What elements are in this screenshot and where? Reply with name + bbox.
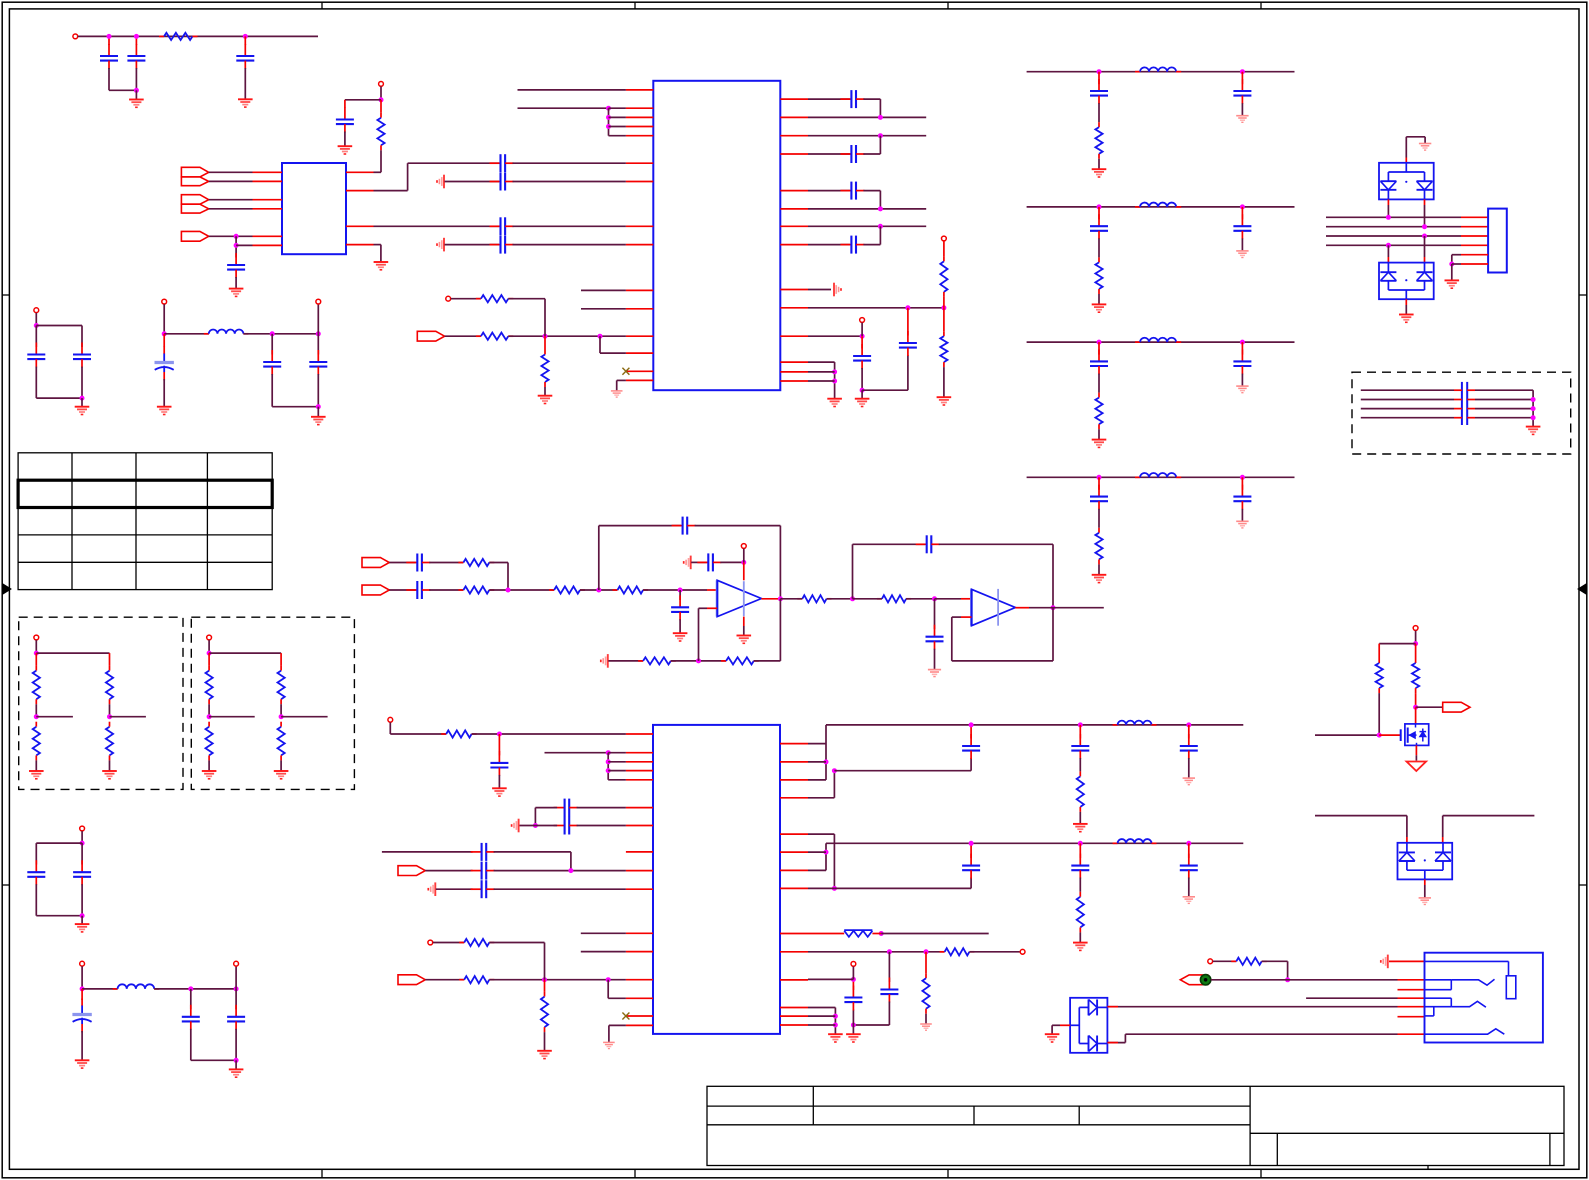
wire bbox=[209, 208, 253, 210]
wire bbox=[1454, 417, 1462, 419]
ground bbox=[737, 636, 752, 644]
wire bus bbox=[1326, 226, 1461, 228]
junction bbox=[134, 34, 139, 39]
wire bbox=[1406, 816, 1408, 837]
pin J1 bbox=[1461, 226, 1488, 228]
wire bbox=[489, 979, 626, 981]
ground bbox=[537, 1051, 552, 1059]
wire bbox=[808, 190, 850, 192]
resistor R17 bbox=[459, 976, 494, 983]
ground bbox=[1419, 898, 1431, 905]
wire bbox=[952, 616, 961, 618]
wire bbox=[209, 716, 255, 718]
wire bbox=[808, 289, 831, 291]
capacitor C16 bbox=[27, 343, 45, 368]
wire bbox=[863, 98, 880, 100]
capacitor bbox=[1090, 485, 1108, 510]
wire bbox=[1424, 879, 1426, 885]
junction bbox=[969, 841, 974, 846]
wire bbox=[743, 562, 745, 580]
wire bbox=[570, 852, 572, 871]
wire bbox=[518, 107, 609, 109]
wire bbox=[108, 36, 110, 45]
ground bbox=[1073, 824, 1088, 832]
wire rail B bbox=[826, 842, 1243, 844]
wire bbox=[1098, 238, 1100, 257]
inductor L7 bbox=[1113, 839, 1157, 843]
wire bbox=[970, 878, 972, 889]
wire bbox=[208, 760, 210, 771]
junction bbox=[533, 823, 538, 828]
wire bbox=[581, 932, 626, 934]
resistor R13 bbox=[721, 657, 759, 664]
wire bbox=[939, 543, 1053, 545]
wire bbox=[853, 598, 882, 600]
wire bbox=[1079, 932, 1081, 942]
wire bbox=[852, 1010, 854, 1026]
resistor R21 bbox=[1077, 892, 1084, 933]
power bar VREF bbox=[601, 654, 608, 668]
wire bbox=[208, 653, 210, 666]
wire bbox=[695, 525, 781, 527]
ground bbox=[1183, 897, 1195, 904]
ground bbox=[1419, 144, 1431, 151]
wire bbox=[1442, 837, 1444, 843]
wire bbox=[1029, 607, 1104, 609]
border tick bbox=[1579, 294, 1587, 296]
pin J2 bbox=[1398, 979, 1425, 981]
revision table bbox=[18, 453, 272, 590]
wire bbox=[1452, 263, 1461, 265]
wire bbox=[743, 617, 745, 626]
resistor R6 bbox=[940, 256, 947, 297]
wire bbox=[36, 915, 82, 917]
resistor R16 bbox=[441, 730, 476, 737]
wire bbox=[1241, 342, 1243, 355]
wire bbox=[808, 380, 835, 382]
junction bbox=[1531, 406, 1536, 411]
wire bbox=[1361, 417, 1454, 419]
wire bbox=[853, 1024, 889, 1026]
resistor bbox=[278, 722, 285, 761]
dual diode D4 bbox=[1070, 998, 1107, 1053]
border tick bbox=[634, 2, 636, 9]
pin U2 right bbox=[780, 116, 808, 118]
wire bbox=[608, 770, 626, 772]
pin U2 right bbox=[780, 380, 808, 382]
wire bbox=[608, 752, 626, 754]
wire bbox=[808, 116, 926, 118]
wire bbox=[863, 190, 880, 192]
connector J2 body bbox=[1425, 953, 1543, 1043]
wire bbox=[1287, 961, 1289, 980]
pin U4 left bbox=[626, 733, 653, 735]
terminal P9 bbox=[741, 544, 746, 549]
junction bbox=[316, 331, 321, 336]
wire bbox=[1107, 1006, 1397, 1008]
junction bbox=[1422, 224, 1427, 229]
wire bbox=[81, 367, 83, 399]
wire bbox=[872, 933, 881, 935]
capacitor C26 bbox=[926, 625, 944, 650]
wire bbox=[507, 563, 509, 591]
wire bbox=[879, 191, 881, 209]
junction bbox=[234, 234, 239, 239]
resistor R4 bbox=[476, 295, 513, 302]
wire bbox=[888, 952, 890, 982]
wire bbox=[808, 225, 926, 227]
pin U2 left bbox=[626, 181, 653, 183]
ground bbox=[1236, 521, 1248, 528]
wire bbox=[1188, 758, 1190, 778]
wire bbox=[943, 241, 945, 256]
wire bbox=[808, 779, 826, 781]
ground bbox=[75, 407, 90, 415]
ground bbox=[229, 1069, 244, 1077]
resistor bbox=[206, 722, 213, 761]
junction bbox=[851, 977, 856, 982]
capacitor C4 bbox=[336, 108, 354, 133]
capacitor C25 bbox=[697, 553, 721, 571]
wire bbox=[81, 326, 83, 348]
capacitor C45 bbox=[182, 1005, 200, 1030]
ground bbox=[928, 670, 941, 677]
junction bbox=[134, 88, 139, 93]
junction bbox=[678, 588, 683, 593]
wire bbox=[208, 640, 210, 653]
wire bbox=[243, 333, 318, 335]
pin U2 left bbox=[626, 370, 653, 372]
wire bbox=[852, 544, 854, 599]
pin U4 left bbox=[626, 888, 653, 890]
wire bbox=[317, 407, 319, 417]
ground bbox=[1236, 116, 1248, 123]
wire bbox=[720, 561, 744, 563]
wire bbox=[235, 236, 237, 257]
junction bbox=[1186, 841, 1191, 846]
capacitor C36 bbox=[1180, 734, 1198, 759]
ground bbox=[920, 1024, 932, 1030]
ground bbox=[157, 407, 172, 415]
wire bbox=[1424, 205, 1426, 227]
wire bbox=[390, 733, 446, 735]
junction bbox=[568, 868, 573, 873]
port EN bbox=[181, 231, 208, 241]
wire bbox=[135, 36, 137, 45]
border tick bbox=[321, 2, 323, 9]
wire bbox=[35, 843, 37, 864]
wire bbox=[707, 607, 717, 609]
resistor bbox=[1095, 122, 1102, 159]
resistor bbox=[33, 666, 40, 705]
wire bbox=[1387, 245, 1389, 257]
power bar AVDD bbox=[437, 175, 444, 189]
wire bbox=[861, 336, 863, 348]
wire bbox=[834, 887, 971, 889]
wire bbox=[935, 598, 962, 600]
wire bbox=[1475, 399, 1533, 401]
wire bbox=[1361, 399, 1454, 401]
resistor bbox=[206, 666, 213, 705]
pin U2 left bbox=[626, 225, 653, 227]
junction bbox=[234, 243, 239, 248]
capacitor C31 bbox=[471, 843, 495, 861]
wire bbox=[425, 870, 472, 872]
junction bbox=[34, 714, 39, 719]
junction bbox=[506, 588, 511, 593]
wire bbox=[374, 244, 381, 246]
junction bbox=[316, 404, 321, 409]
wire bbox=[808, 335, 862, 337]
pin J1 bbox=[1461, 263, 1488, 265]
wire bbox=[382, 851, 473, 853]
wire bbox=[1306, 997, 1397, 999]
junction bbox=[1377, 733, 1382, 738]
wire bbox=[808, 833, 834, 835]
wire bbox=[1415, 745, 1417, 755]
option box bbox=[191, 617, 354, 789]
wire bbox=[808, 851, 826, 853]
junction bbox=[741, 560, 746, 565]
junction bbox=[542, 977, 547, 982]
junction bbox=[1531, 415, 1536, 420]
pin U1 left bbox=[253, 199, 283, 201]
inductor L1 bbox=[1135, 67, 1181, 71]
wire bbox=[808, 933, 844, 935]
wire bbox=[608, 997, 626, 999]
capacitor bbox=[1233, 349, 1251, 374]
wire bbox=[1188, 725, 1190, 739]
junction bbox=[34, 323, 39, 328]
wire bbox=[852, 979, 854, 990]
op-amp U3A bbox=[717, 580, 761, 616]
junction bbox=[1413, 705, 1418, 710]
wire bbox=[943, 297, 945, 308]
junction bbox=[80, 986, 85, 991]
ground bbox=[274, 771, 289, 779]
wire bbox=[1098, 294, 1100, 304]
terminal P10 bbox=[388, 717, 393, 722]
junction bbox=[207, 651, 212, 656]
wire bbox=[1098, 159, 1100, 169]
capacitor C43 bbox=[73, 860, 91, 885]
wire bbox=[808, 208, 926, 210]
wire bbox=[808, 1024, 835, 1026]
wire bbox=[1454, 399, 1462, 401]
ground bbox=[1092, 575, 1107, 583]
wire bbox=[1188, 843, 1190, 858]
wire bbox=[389, 562, 416, 564]
wire bbox=[1052, 1024, 1060, 1026]
junction bbox=[606, 115, 611, 120]
junction bbox=[1097, 475, 1102, 480]
wire bbox=[535, 807, 557, 809]
wire bbox=[679, 619, 681, 633]
pin U2 left bbox=[626, 126, 653, 128]
wire bbox=[244, 36, 246, 45]
wire bbox=[513, 244, 626, 246]
ground bbox=[202, 771, 217, 779]
ground bbox=[937, 397, 952, 405]
pin U4 left bbox=[626, 761, 653, 763]
wire bbox=[808, 153, 850, 155]
resistor bbox=[33, 722, 40, 761]
wire bbox=[1241, 374, 1243, 387]
capacitor C3 bbox=[236, 44, 254, 69]
wire bbox=[1079, 758, 1081, 771]
resistor R1 bbox=[159, 33, 198, 40]
wire bbox=[1424, 257, 1426, 263]
capacitor C38 bbox=[1071, 854, 1089, 879]
pin J2 bbox=[1398, 1033, 1425, 1035]
wire net VIN bbox=[78, 35, 318, 37]
wire bbox=[1415, 707, 1417, 724]
wire bbox=[679, 590, 681, 600]
wire bbox=[761, 598, 780, 600]
wire bbox=[1389, 960, 1425, 962]
junction bbox=[878, 115, 883, 120]
pin U2 left bbox=[626, 379, 653, 381]
pin U1 right bbox=[346, 190, 374, 192]
pin U2 right bbox=[780, 371, 808, 373]
wire bbox=[534, 808, 536, 826]
no-connect bbox=[622, 368, 629, 375]
wire bbox=[235, 1060, 237, 1069]
wire bbox=[407, 163, 409, 190]
ground bbox=[1236, 386, 1248, 393]
junction bbox=[1097, 69, 1102, 74]
pin J1 bbox=[1461, 235, 1488, 237]
terminal P14 bbox=[1413, 626, 1418, 631]
wire bbox=[961, 616, 972, 618]
wire bbox=[445, 335, 481, 337]
border arrow right bbox=[1578, 584, 1586, 594]
wire bus bbox=[1326, 244, 1461, 246]
wire bbox=[580, 589, 618, 591]
resistor R2 bbox=[377, 113, 384, 151]
wire bbox=[498, 775, 500, 788]
capacitor C20 bbox=[309, 350, 327, 375]
resistor R9 bbox=[458, 586, 494, 593]
pin U4 right bbox=[780, 833, 808, 835]
wire bbox=[489, 589, 554, 591]
wire bbox=[513, 225, 626, 227]
wire bbox=[35, 760, 37, 771]
pin U2 left bbox=[626, 289, 653, 291]
wire bbox=[244, 68, 246, 99]
ferrite bead FB1 bbox=[844, 930, 872, 937]
capacitor bbox=[1090, 349, 1108, 374]
port pair IN1/IN2 bbox=[181, 167, 208, 185]
junction bbox=[1097, 340, 1102, 345]
wire bbox=[1475, 408, 1533, 410]
power bar bbox=[512, 819, 519, 833]
wire bbox=[1107, 1042, 1125, 1044]
wire bbox=[163, 379, 165, 407]
wire bbox=[317, 304, 319, 334]
wire bbox=[1098, 72, 1100, 85]
ground bbox=[1445, 280, 1460, 288]
wire bbox=[1406, 136, 1425, 138]
wire bbox=[82, 988, 118, 990]
wire bbox=[380, 87, 382, 100]
no-connect bbox=[622, 1013, 629, 1020]
wire bbox=[1415, 693, 1417, 707]
capacitor C35 bbox=[1071, 734, 1089, 759]
wire bbox=[1079, 843, 1081, 858]
wire bbox=[1379, 643, 1415, 645]
capacitor C15 bbox=[899, 331, 917, 356]
junction bbox=[606, 106, 611, 111]
ground bbox=[603, 1042, 615, 1048]
pin U2 right bbox=[780, 335, 808, 337]
wire bbox=[852, 967, 854, 980]
wire bbox=[1379, 734, 1401, 736]
wire bbox=[852, 1025, 854, 1034]
wire bbox=[780, 598, 802, 600]
capacitor C23 bbox=[671, 595, 689, 620]
wire bbox=[1098, 429, 1100, 439]
ground bbox=[611, 391, 623, 397]
wire bbox=[191, 1059, 236, 1061]
wire bbox=[135, 90, 137, 99]
wire bbox=[109, 653, 111, 666]
resistor bbox=[278, 666, 285, 705]
wire bbox=[599, 336, 601, 353]
wire bbox=[1387, 205, 1389, 217]
ground bbox=[229, 289, 244, 297]
wire bbox=[544, 387, 546, 396]
junction bbox=[833, 1023, 838, 1028]
pin J1 bbox=[1461, 244, 1488, 246]
junction bbox=[778, 596, 783, 601]
capacitor C5 bbox=[227, 253, 245, 278]
wire bbox=[81, 1031, 83, 1060]
junction bbox=[162, 331, 167, 336]
terminal P13 bbox=[851, 962, 856, 967]
resistor R11 bbox=[613, 586, 649, 593]
wire bbox=[1315, 815, 1407, 817]
wire bbox=[317, 374, 319, 407]
ground bbox=[492, 788, 507, 796]
wire bbox=[1475, 417, 1533, 419]
wire bbox=[879, 226, 881, 244]
wire bbox=[81, 398, 83, 407]
wire bbox=[577, 807, 626, 809]
resistor R15 bbox=[877, 595, 911, 602]
ground bbox=[1183, 778, 1195, 785]
power bar bbox=[428, 882, 435, 896]
capacitor C32 bbox=[471, 862, 495, 880]
wire bbox=[1098, 103, 1100, 122]
wire bbox=[280, 760, 282, 771]
resistor R24 bbox=[1376, 658, 1383, 693]
border tick bbox=[2, 294, 9, 296]
junction bbox=[107, 714, 112, 719]
title block bbox=[707, 1086, 1564, 1169]
resistor R14 bbox=[797, 595, 831, 602]
ground bbox=[1092, 304, 1107, 312]
wire rail bbox=[1027, 476, 1295, 478]
IC U4 body bbox=[653, 725, 780, 1034]
wire bbox=[808, 869, 826, 871]
junction bbox=[932, 596, 937, 601]
ground bbox=[1526, 427, 1541, 435]
wire bbox=[1454, 389, 1462, 391]
wire bbox=[1443, 815, 1535, 817]
capacitor C7 bbox=[490, 217, 514, 235]
resistor bbox=[106, 722, 113, 761]
